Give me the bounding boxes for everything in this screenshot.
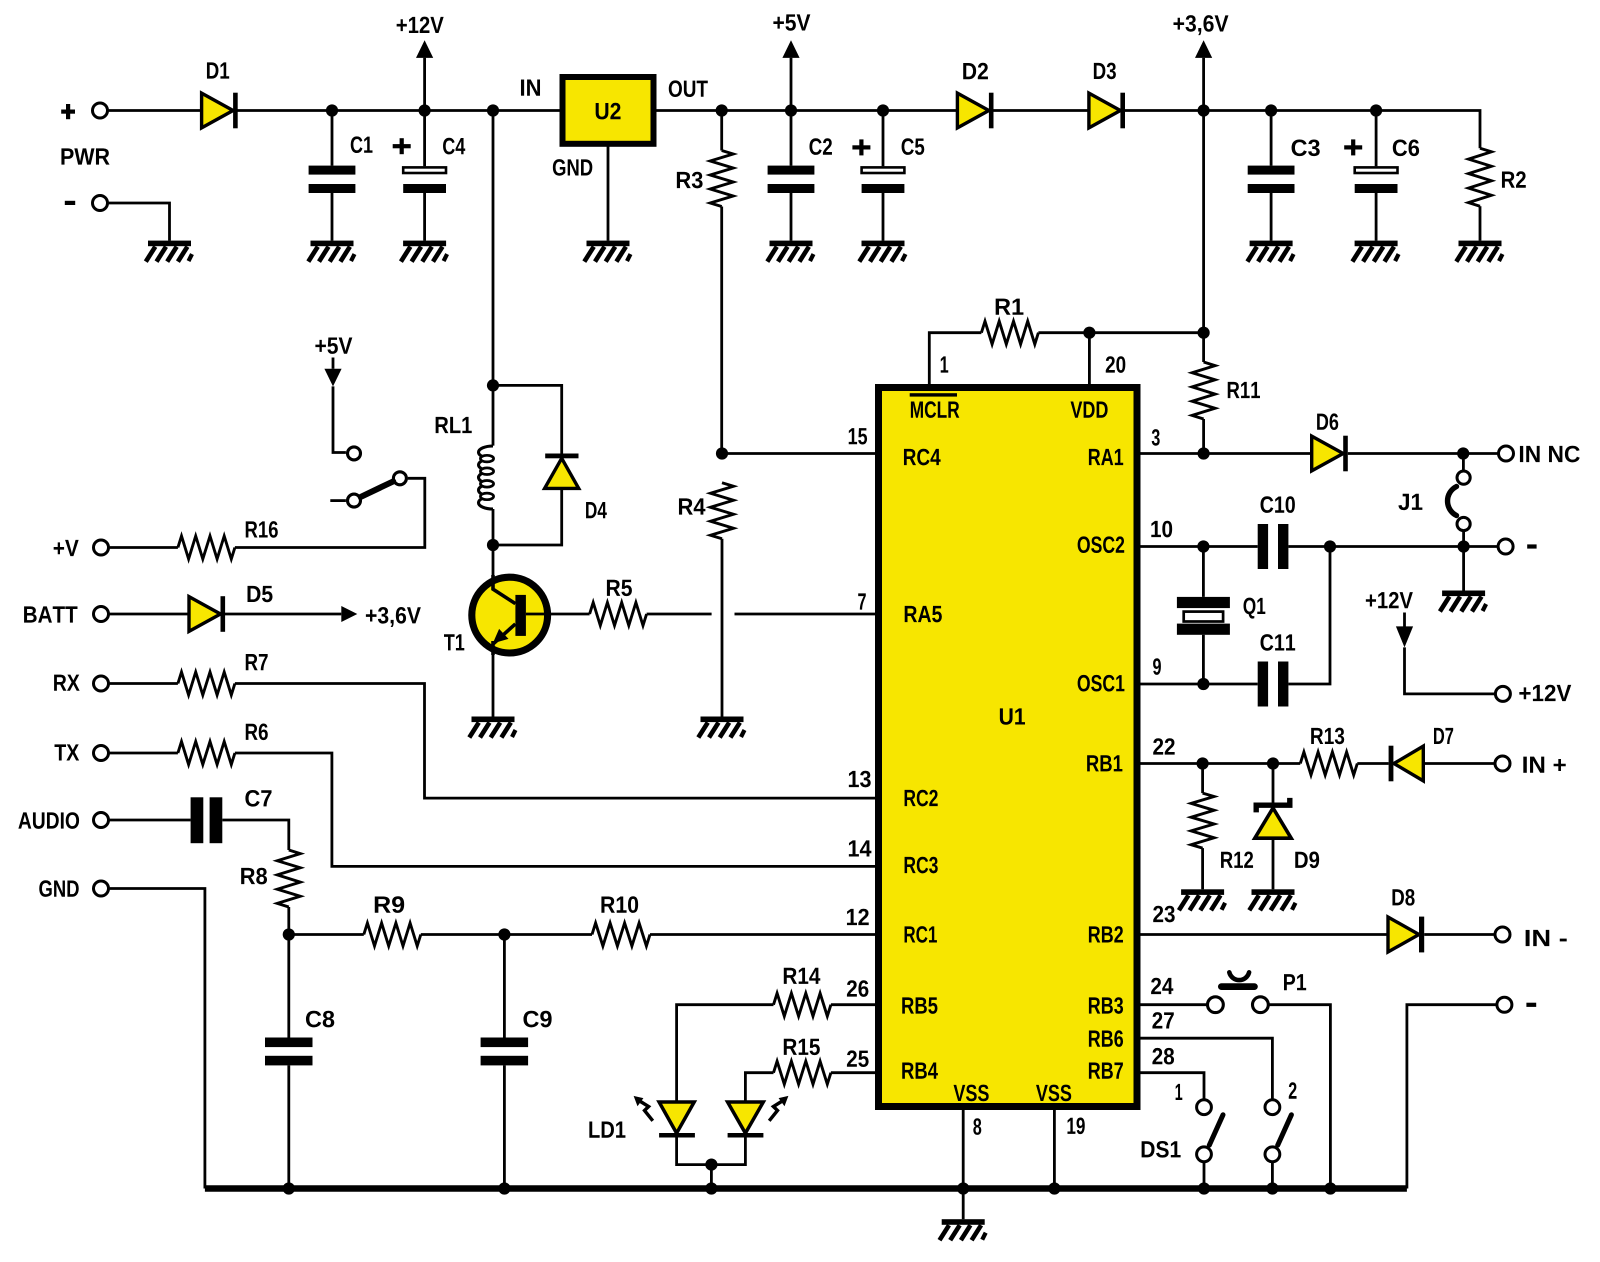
label OUT: [669, 80, 708, 97]
diode D1: [202, 93, 238, 129]
wire PWR- to ground: [109, 203, 170, 241]
label pin 25: [847, 1050, 869, 1067]
wire R12 to ground: [1201, 848, 1204, 889]
label R10: [601, 896, 638, 913]
label C7: [245, 790, 271, 807]
wire C1 leads: [331, 111, 334, 241]
junction VDD node: [1083, 327, 1095, 339]
terminal - (osc): [1498, 539, 1513, 554]
label +5V: [773, 14, 810, 30]
label pin 23: [1153, 906, 1175, 923]
label C10: [1261, 496, 1295, 513]
wire R7 to RC2: [235, 684, 875, 799]
ground R4: [698, 717, 744, 738]
capacitor C7: [191, 797, 223, 843]
label pin 3: [1152, 429, 1160, 446]
wire D4 branch top: [493, 385, 562, 453]
wire D8 to IN-: [1424, 933, 1494, 936]
wire to D9: [1272, 764, 1275, 803]
junction +3.6V node: [1198, 104, 1210, 116]
label P1: [1284, 974, 1306, 990]
wire emitter to ground: [492, 652, 495, 717]
label IN: [521, 80, 540, 96]
wire +12V to terminal: [1405, 647, 1495, 694]
power arrow +5V: [782, 40, 799, 58]
diode D7: [1389, 746, 1424, 782]
terminal IN NC: [1499, 446, 1514, 461]
wire crystal leads: [1202, 547, 1205, 685]
ground U2: [584, 241, 630, 262]
wire RB1: [1140, 762, 1300, 765]
junction OSC1 Q1: [1197, 678, 1209, 690]
diode D2: [957, 93, 993, 129]
label T1: [444, 634, 464, 650]
junction J1 ground node: [1458, 540, 1470, 552]
ground C5: [859, 241, 905, 262]
capacitor C5: [862, 167, 905, 193]
label R9: [375, 896, 404, 913]
wire R2 to ground: [1479, 206, 1482, 240]
label D7: [1434, 728, 1453, 744]
label AUDIO: [18, 812, 79, 829]
power arrow +12V down: [1396, 626, 1413, 647]
label -: [1526, 1003, 1536, 1007]
junction bus VSS8: [957, 1182, 969, 1194]
wire R10 to RC1: [650, 933, 875, 936]
wire RB6 to DS1-2: [1140, 1038, 1272, 1099]
wire bus to - terminal: [1407, 1005, 1496, 1189]
junction bus DS1-1: [1198, 1182, 1210, 1194]
plus C6: [1344, 139, 1362, 155]
capacitor C2: [768, 166, 815, 193]
label R5: [607, 580, 632, 596]
resistor R1: [981, 321, 1038, 344]
wire RB5 to R14: [831, 1003, 875, 1006]
jumper J1 pin A: [1457, 471, 1470, 484]
ground C2: [767, 241, 813, 262]
diode D4: [545, 454, 579, 489]
wire C8 leads: [287, 935, 290, 1189]
wire to ground J1: [1462, 547, 1465, 591]
label VSS 2: [1036, 1085, 1071, 1102]
terminal BATT: [94, 607, 109, 622]
wire RA1 to D6: [1140, 452, 1312, 455]
label RL1: [436, 417, 472, 433]
resistor R5: [590, 603, 647, 626]
label Q1: [1244, 598, 1266, 619]
resistor R6: [178, 742, 235, 765]
label RC4: [904, 449, 941, 466]
wire RB2: [1140, 933, 1388, 936]
wire R11 to RA1: [1202, 419, 1205, 454]
wire node to R9: [289, 933, 364, 936]
power arrow +5V down: [324, 369, 341, 387]
label pin 13: [849, 771, 871, 788]
ground C4: [401, 241, 447, 262]
diode D5: [189, 596, 225, 632]
junction relay feed: [487, 104, 499, 116]
junction OSC2 Q1: [1197, 540, 1209, 552]
label pin 14: [849, 840, 872, 856]
junction R3 node: [716, 104, 728, 116]
label TX: [55, 744, 80, 760]
label pin 20: [1106, 356, 1126, 373]
label BATT: [24, 606, 77, 622]
plus C4: [393, 138, 411, 154]
wire C5 leads: [882, 111, 885, 241]
wire R15 to LED2: [745, 1073, 773, 1102]
label RB1: [1087, 755, 1122, 771]
junction LED cathodes: [705, 1159, 717, 1171]
wire OSC1: [1140, 683, 1258, 686]
label IN NC: [1520, 446, 1580, 463]
label pin 24: [1151, 978, 1173, 994]
plus C5: [852, 139, 870, 155]
label D5: [248, 586, 273, 602]
wire R3 to RC4 node: [720, 111, 723, 454]
resistor R14: [774, 993, 831, 1016]
wire VSS pin8: [962, 1107, 965, 1189]
label DS1 pin 1: [1176, 1084, 1183, 1100]
ground J1: [1440, 591, 1486, 612]
label pin 19: [1067, 1117, 1084, 1134]
label RB7: [1089, 1063, 1123, 1079]
wire C3 leads: [1270, 111, 1273, 241]
junction C4 node: [419, 104, 431, 116]
junction R11 top: [1198, 327, 1210, 339]
ground R2: [1456, 241, 1502, 262]
wire D6 to IN NC: [1348, 452, 1498, 455]
label RA5: [905, 606, 942, 622]
wire R16 to switch: [235, 478, 425, 547]
ground T1: [469, 717, 515, 738]
label pin 1: [941, 356, 949, 372]
label R3: [677, 172, 703, 189]
label VDD: [1071, 402, 1108, 418]
label RB2: [1089, 926, 1123, 942]
wire VDD pin20 stub: [1088, 333, 1091, 384]
diode D3: [1089, 93, 1125, 129]
junction C2 node: [785, 104, 797, 116]
label LD1: [589, 1122, 625, 1138]
label +3,6V flag: [366, 607, 421, 627]
junction C10 C11: [1324, 540, 1336, 552]
label R4: [679, 498, 705, 514]
label J1: [1398, 494, 1422, 510]
resistor R7: [178, 672, 235, 695]
wire node to R10: [504, 933, 592, 936]
wire RC4 pin: [722, 452, 875, 455]
label C3: [1292, 139, 1320, 156]
wire GND to bus: [110, 889, 205, 1189]
label D1: [207, 62, 229, 78]
diode D8: [1388, 917, 1424, 953]
label R11: [1228, 382, 1260, 398]
label D2: [963, 63, 988, 79]
ground D9: [1249, 889, 1295, 910]
label D3: [1094, 63, 1116, 80]
junction bus LED: [705, 1182, 717, 1194]
wire R13 to D7: [1357, 762, 1388, 765]
label pin 8: [973, 1118, 981, 1135]
resistor R11: [1192, 362, 1215, 419]
label R15: [784, 1039, 820, 1055]
label OSC1: [1078, 675, 1125, 692]
wire TX to R6: [110, 752, 178, 755]
ground PWR-: [146, 241, 192, 262]
label pin 12: [847, 909, 869, 925]
wire DS1-2 to bus: [1271, 1162, 1274, 1188]
label IN +: [1523, 757, 1565, 773]
label IN -: [1526, 930, 1567, 946]
junction C6 node: [1370, 104, 1382, 116]
wire D4 branch bottom: [493, 488, 562, 545]
label U2: [596, 103, 621, 120]
capacitor C4: [403, 167, 446, 193]
relay switch contact: [330, 447, 406, 507]
resistor R15: [774, 1061, 831, 1084]
junction bus DS1-2: [1266, 1182, 1278, 1194]
wire BATT to D5: [110, 613, 189, 616]
wire LED cathodes: [677, 1138, 746, 1189]
wire P1 to bus: [1268, 1005, 1330, 1189]
regulator U2: [563, 77, 654, 144]
terminal PWR +: [93, 103, 108, 118]
resistor R4: [711, 483, 734, 539]
terminal GND: [94, 881, 109, 896]
wire C9 leads: [503, 935, 506, 1189]
relay coil RL1: [479, 446, 494, 509]
wire base to R5: [526, 613, 590, 616]
capacitor C11: [1258, 662, 1289, 707]
wire J1 bottom stub: [1462, 531, 1465, 547]
label +12V flag: [1366, 592, 1413, 608]
LED LD1 a: [634, 1096, 695, 1138]
label pin 10: [1151, 521, 1172, 538]
label C8: [306, 1011, 334, 1028]
label +12V terminal: [1519, 685, 1571, 701]
label R6: [246, 723, 268, 740]
dip switch DS1 section 1: [1197, 1100, 1223, 1162]
terminal PWR -: [93, 196, 108, 211]
wire C7 to R8: [222, 820, 288, 850]
terminal +12V: [1495, 686, 1510, 701]
label C5: [902, 138, 925, 155]
label C9: [523, 1011, 551, 1028]
wire RB3 to P1: [1140, 1003, 1207, 1006]
wire +5V stem / C2 leads: [790, 58, 793, 241]
wire DS1-1 to bus: [1203, 1162, 1206, 1188]
junction bus C9: [498, 1182, 510, 1194]
wire +V to R16: [110, 546, 178, 549]
wire collector: [492, 545, 495, 578]
label pin 28: [1152, 1048, 1174, 1065]
label +12V: [397, 17, 444, 33]
junction C3 node: [1265, 104, 1277, 116]
label MCLR: [911, 401, 959, 418]
ground R12: [1179, 889, 1225, 910]
junction R9 R10 C9: [498, 928, 510, 940]
wire R6 to RC3: [235, 753, 875, 866]
wire +5V flag stem: [332, 358, 335, 369]
label + (PWR): [61, 104, 75, 119]
junction R12 top: [1197, 757, 1209, 769]
ground bus: [205, 1185, 1407, 1191]
label pin 7: [858, 593, 866, 609]
wire C11 to C10: [1288, 547, 1330, 685]
label DS1 pin 2: [1289, 1082, 1297, 1098]
resistor R9: [364, 923, 421, 946]
jumper J1 link: [1448, 487, 1457, 516]
wire RX to R7: [110, 682, 178, 685]
wire R1 to +3.6V rail: [1038, 331, 1203, 334]
power arrow +12V: [416, 40, 433, 58]
junction R11 RA1: [1198, 447, 1210, 459]
label +3,6V: [1173, 15, 1228, 35]
label pin 22: [1153, 738, 1174, 754]
wire R9 to C9 node: [421, 933, 505, 936]
capacitor C10: [1258, 524, 1289, 569]
LED LD1 b: [728, 1096, 789, 1138]
junction J1 top: [1457, 447, 1469, 459]
resistor R16: [178, 536, 235, 559]
label +5V flag: [315, 338, 352, 354]
label RC2: [905, 790, 938, 807]
capacitor C3: [1248, 166, 1295, 193]
junction bus P1: [1324, 1182, 1336, 1194]
wire R14 to LED1: [677, 1005, 774, 1102]
wire C6 leads: [1375, 111, 1378, 241]
terminal IN -: [1495, 927, 1510, 942]
terminal - (bottom): [1497, 997, 1512, 1012]
resistor R13: [1300, 752, 1357, 775]
label PWR: [61, 148, 109, 164]
junction bus VSS19: [1048, 1182, 1060, 1194]
label R13: [1311, 728, 1344, 745]
label RA1: [1089, 449, 1123, 465]
label R7: [246, 654, 268, 670]
label VSS 1: [954, 1085, 989, 1102]
resistor R8: [277, 850, 300, 907]
label GND U2: [553, 159, 592, 176]
label C4: [443, 138, 465, 155]
label C11: [1261, 634, 1296, 651]
label RC3: [905, 857, 938, 874]
label RB5: [902, 997, 937, 1013]
junction D4 bottom: [487, 539, 499, 551]
wire to R12: [1201, 764, 1204, 794]
wire D5 to arrow: [225, 613, 341, 616]
label U1: [1000, 708, 1025, 724]
wire D7 to IN+: [1423, 762, 1494, 765]
label pin 26: [847, 980, 869, 997]
label pin 9: [1153, 658, 1161, 675]
wire rail to RL1: [492, 111, 495, 446]
jumper J1 pin B: [1457, 517, 1470, 530]
ground VSS: [940, 1219, 986, 1240]
junction C5 node: [877, 104, 889, 116]
capacitor C1: [309, 166, 356, 193]
power arrow +3,6V: [1195, 40, 1212, 58]
wire C10 to - terminal: [1288, 545, 1497, 548]
wire AUDIO to C7: [110, 819, 191, 822]
label R8: [241, 868, 267, 885]
label RC1: [905, 926, 937, 943]
wire +3.6V down to R11: [1202, 111, 1205, 363]
terminal +V: [94, 540, 109, 555]
label D6: [1317, 413, 1338, 430]
capacitor C8: [265, 1038, 313, 1066]
wire OSC2: [1140, 545, 1258, 548]
label R16: [246, 521, 278, 538]
wire R4 to ground: [721, 539, 724, 717]
wire U2 GND lead: [607, 144, 610, 241]
ground C1: [308, 241, 354, 262]
wire +3.6V stem: [1202, 58, 1205, 111]
junction bus C8: [283, 1182, 295, 1194]
terminal RX: [94, 676, 109, 691]
wire RB7 to DS1-1: [1140, 1073, 1204, 1100]
label D9: [1295, 851, 1319, 868]
ground C6: [1352, 241, 1398, 262]
label pin 27: [1152, 1012, 1173, 1028]
wire J1 top stub: [1462, 454, 1465, 472]
transistor T1: [472, 575, 548, 655]
terminal IN +: [1495, 756, 1510, 771]
wire MCLR pin1 to R1: [929, 333, 981, 384]
label R14: [784, 968, 821, 984]
crystal Q1: [1177, 597, 1230, 635]
label RX: [54, 675, 80, 691]
capacitor C9: [481, 1038, 528, 1066]
MCLR overbar: [910, 393, 957, 396]
terminal AUDIO: [94, 813, 109, 828]
label +V: [54, 540, 79, 556]
label OSC2: [1078, 536, 1125, 553]
junction D9 top: [1267, 757, 1279, 769]
wire D9 to ground: [1272, 838, 1275, 889]
wire +5V to switch: [333, 386, 346, 452]
label R2: [1502, 171, 1526, 187]
label RB4: [902, 1063, 938, 1079]
wire RB4 to R15: [831, 1071, 875, 1074]
terminal TX: [94, 746, 109, 761]
label DS1: [1142, 1141, 1181, 1158]
label D4: [586, 502, 607, 518]
label C2: [809, 138, 831, 155]
label C6: [1393, 139, 1419, 156]
resistor R12: [1191, 793, 1214, 848]
power arrow +3,6V right: [341, 606, 357, 622]
junction R8 R9 C8: [283, 928, 295, 940]
resistor R3: [710, 151, 733, 207]
label C1: [351, 136, 373, 153]
capacitor C6: [1355, 167, 1398, 193]
wire RL1 bottom: [492, 509, 495, 545]
resistor R10: [592, 923, 650, 946]
label R12: [1221, 851, 1253, 867]
wire +12V stem / C4 leads: [423, 58, 426, 241]
wire +12V flag stem: [1403, 613, 1406, 628]
zener D9: [1255, 798, 1291, 838]
wire top rail: [109, 111, 1480, 149]
junction D4 top: [487, 379, 499, 391]
wire bus to ground: [962, 1189, 965, 1220]
junction C1 node: [326, 104, 338, 116]
label -: [1527, 544, 1536, 548]
wire VSS pin19: [1053, 1107, 1056, 1189]
diode D6: [1312, 436, 1348, 472]
